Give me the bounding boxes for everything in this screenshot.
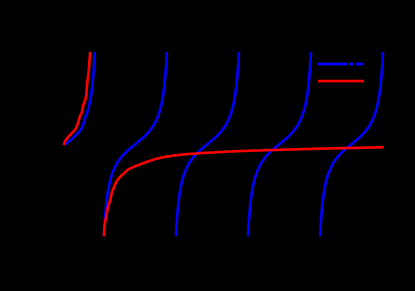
legend red sample line bbox=[318, 80, 364, 83]
red curve right piece (from bottom clip, elbow, flat tail to x=14) bbox=[104, 147, 384, 236]
red curve left piece (rises to top clip before first pole) bbox=[64, 52, 91, 145]
blue tan(x) curve branch 5 bbox=[320, 52, 383, 236]
blue tan(x) curve branch 4 bbox=[248, 52, 311, 236]
legend blue sample line (segmented) bbox=[318, 63, 364, 66]
blue tan(x) curve branch 3 bbox=[176, 52, 239, 236]
blue tan(x) curve branch 1 (x in 0..pi/2) bbox=[66, 52, 95, 144]
blue tan(x) curve branch 2 bbox=[104, 52, 167, 236]
